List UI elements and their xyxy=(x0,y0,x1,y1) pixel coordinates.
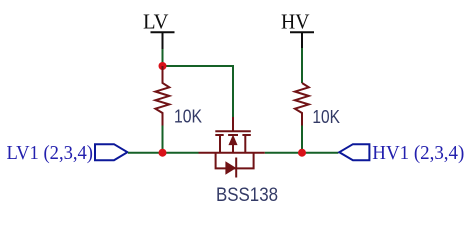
channel segment body xyxy=(228,134,238,136)
wire R2 to source row xyxy=(301,126,303,153)
port LV1 (2,3,4) xyxy=(7,143,128,164)
source/drain pin row xyxy=(199,152,265,154)
wire LV supply stub xyxy=(162,49,164,66)
svg-text:HV: HV xyxy=(281,10,310,34)
source lead xyxy=(219,135,221,153)
svg-text:BSS138: BSS138 xyxy=(216,185,278,206)
svg-text:HV1 (2,3,4): HV1 (2,3,4) xyxy=(372,143,464,164)
junction node HV side xyxy=(298,149,306,157)
svg-text:LV: LV xyxy=(143,10,169,34)
wire HV supply stub xyxy=(301,48,303,83)
gate pin xyxy=(232,117,234,131)
wire right node to HV1 xyxy=(265,152,339,154)
power symbol LV xyxy=(151,32,175,50)
body diode anode triangle xyxy=(226,162,235,174)
resistor R2 xyxy=(295,83,309,126)
svg-text:10K: 10K xyxy=(312,106,340,127)
resistor R1 xyxy=(155,66,169,126)
wire R1 to drain row xyxy=(162,126,164,153)
svg-text:10K: 10K xyxy=(174,106,202,127)
svg-text:LV1 (2,3,4): LV1 (2,3,4) xyxy=(7,143,94,164)
body arrow xyxy=(229,136,237,145)
wire LV1 to left node xyxy=(128,152,199,154)
transistor Q1 BSS138 xyxy=(199,117,265,178)
power symbol HV xyxy=(290,32,314,49)
body diode loop xyxy=(216,153,254,169)
body stem xyxy=(232,144,234,153)
drain lead xyxy=(244,135,246,153)
junction node LV side xyxy=(159,149,167,157)
body diode cathode bar xyxy=(235,158,237,178)
gate bar xyxy=(215,130,251,132)
port HV1 (2,3,4) xyxy=(339,143,464,164)
wire gate net xyxy=(163,66,234,118)
channel segment drain xyxy=(242,134,250,136)
junction node LV/R1/gate xyxy=(159,62,167,70)
channel segment source xyxy=(215,134,223,136)
